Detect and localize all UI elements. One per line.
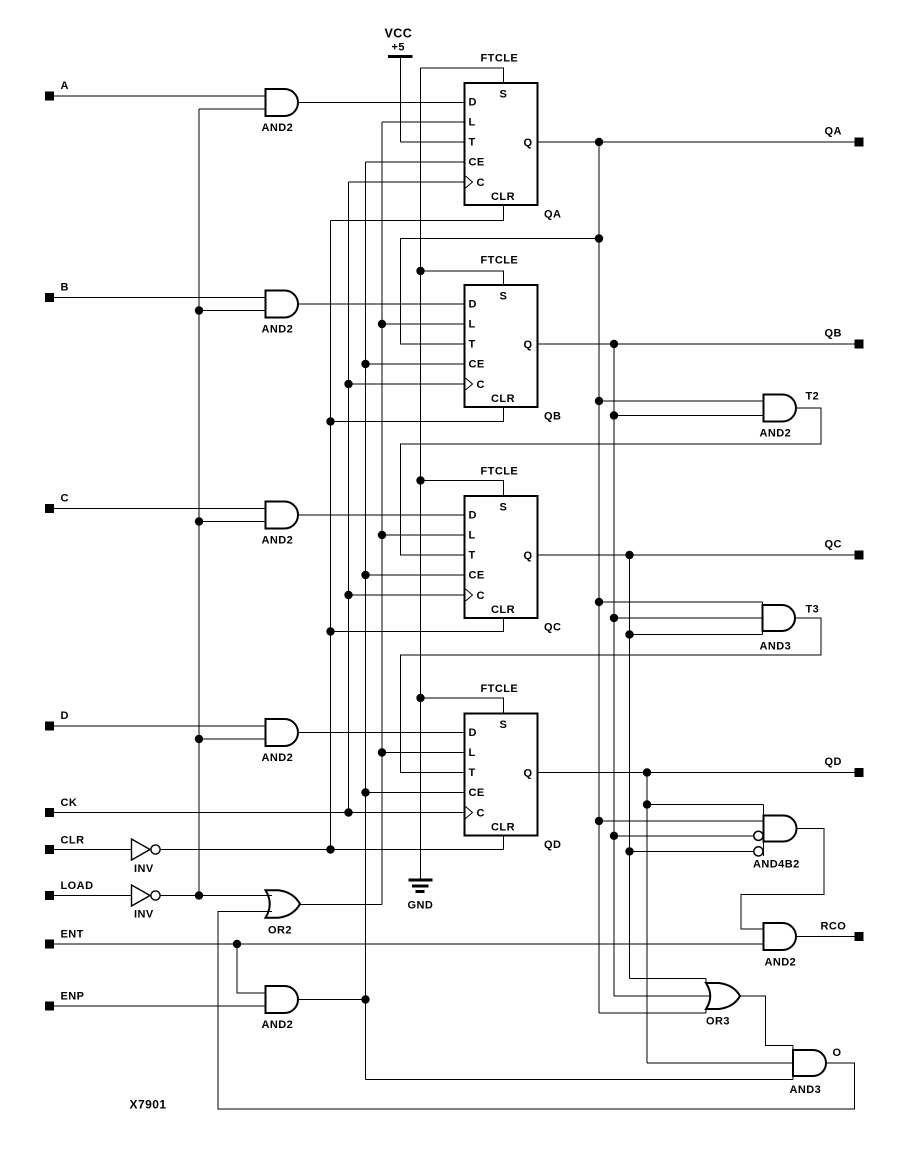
- junction CLR' at inverter line: [326, 845, 334, 853]
- svg-text:D: D: [469, 97, 477, 109]
- wire net QD vertical and branches: [647, 773, 793, 1064]
- svg-text:S: S: [500, 89, 508, 101]
- svg-text:C: C: [61, 493, 69, 505]
- junction CE at FF2: [361, 360, 369, 368]
- junction QB at T2 input: [610, 411, 618, 419]
- svg-text:T: T: [469, 550, 476, 562]
- wire ENT branch to ENP AND2: [237, 944, 266, 993]
- svg-text:ENP: ENP: [61, 991, 85, 1003]
- OR3 gate (terminal count): [706, 979, 740, 1028]
- AND2 gate RCO: [764, 923, 797, 969]
- output terminal RCO: [821, 921, 864, 942]
- svg-text:QC: QC: [544, 622, 561, 634]
- junction QC at Q output: [625, 551, 633, 559]
- svg-text:FTCLE: FTCLE: [481, 466, 519, 478]
- inverter INV (LOAD): [132, 885, 161, 921]
- svg-text:AND2: AND2: [760, 428, 792, 440]
- wire AND4B2 out loop to RCO AND2: [741, 829, 824, 930]
- svg-text:QC: QC: [825, 539, 842, 551]
- svg-text:FTCLE: FTCLE: [481, 53, 519, 65]
- junction S at FF4: [416, 694, 424, 702]
- svg-text:S: S: [500, 291, 508, 303]
- svg-text:INV: INV: [134, 909, 154, 921]
- svg-text:T: T: [469, 767, 476, 779]
- svg-text:CE: CE: [469, 570, 485, 582]
- svg-text:AND2: AND2: [262, 1019, 294, 1031]
- svg-text:CLR: CLR: [61, 835, 85, 847]
- wire CLR input to inverter: [54, 849, 132, 851]
- junction QA at AND4B2 input: [595, 817, 603, 825]
- svg-text:B: B: [61, 282, 69, 294]
- wire VCC to FF1 T: [401, 141, 465, 143]
- svg-text:D: D: [469, 299, 477, 311]
- wire net S to GND with FF S stubs: [421, 68, 504, 879]
- inverter INV (CLR): [132, 839, 161, 875]
- power symbol VCC +5: [385, 27, 413, 143]
- svg-text:CE: CE: [469, 787, 485, 799]
- input terminal CLR: [45, 835, 84, 855]
- svg-text:AND2: AND2: [262, 752, 294, 764]
- junction QA at T3 input: [595, 598, 603, 606]
- flip-flop FTCLE (QD): [465, 683, 562, 851]
- input terminal LOAD: [45, 880, 93, 900]
- svg-text:LOAD: LOAD: [61, 880, 94, 892]
- svg-text:A: A: [61, 80, 69, 92]
- svg-text:X7901: X7901: [130, 1098, 167, 1112]
- wire AND2-B out to FF2 D: [298, 303, 465, 305]
- svg-text:ENT: ENT: [61, 929, 84, 941]
- wire AND2-C out to FF3 D: [298, 514, 465, 516]
- svg-text:INV: INV: [134, 863, 154, 875]
- AND2 gate ENP*ENT: [262, 986, 299, 1031]
- svg-text:QD: QD: [825, 756, 842, 768]
- wire net L vertical with FF L stubs: [300, 122, 465, 905]
- junction CE at FF3: [361, 571, 369, 579]
- svg-text:T: T: [469, 137, 476, 149]
- svg-text:AND2: AND2: [262, 122, 294, 134]
- svg-text:C: C: [477, 590, 485, 602]
- wire OR2 out to L net: [299, 904, 300, 906]
- svg-text:QB: QB: [825, 328, 842, 340]
- svg-text:AND2: AND2: [765, 957, 797, 969]
- AND2 gate (D input): [262, 719, 299, 764]
- svg-text:AND3: AND3: [760, 641, 792, 653]
- output terminal QB: [825, 328, 864, 349]
- wire FF1 Q to QA terminal: [538, 141, 855, 143]
- AND2 gate T2: [760, 391, 820, 440]
- wire net QB vertical and branches: [614, 344, 764, 996]
- wire T2 out loop to FF3 T: [401, 408, 822, 555]
- junction LOAD' at D gate: [195, 735, 203, 743]
- wire net QA vertical and branches: [599, 142, 764, 1013]
- wire AND2-D out to FF4 D: [298, 732, 465, 734]
- svg-text:OR3: OR3: [706, 1016, 730, 1028]
- flip-flop FTCLE (QC): [465, 466, 562, 634]
- junction QA at Q output: [595, 138, 603, 146]
- svg-text:D: D: [469, 727, 477, 739]
- flip-flop FTCLE (QB): [465, 255, 562, 423]
- wire net LOAD' (inverter out, AND2 second inputs): [160, 109, 272, 896]
- svg-text:C: C: [477, 379, 485, 391]
- junction clock at CK line: [344, 808, 352, 816]
- AND2 gate (A input): [262, 89, 298, 134]
- svg-text:L: L: [469, 117, 476, 129]
- svg-text:CLR: CLR: [491, 191, 515, 203]
- svg-text:T3: T3: [806, 604, 820, 616]
- input terminal B: [45, 282, 69, 303]
- output terminal QA: [825, 126, 864, 147]
- svg-text:AND3: AND3: [790, 1084, 822, 1096]
- junction QD at AND4B2 input: [643, 800, 651, 808]
- label X7901: [130, 1098, 167, 1112]
- junction CLR' at FF2: [326, 417, 334, 425]
- svg-text:S: S: [500, 719, 508, 731]
- svg-text:O: O: [833, 1047, 842, 1059]
- svg-text:AND2: AND2: [262, 324, 294, 336]
- svg-text:QA: QA: [544, 209, 561, 221]
- wire LOAD input to inverter: [54, 895, 132, 897]
- junction L at FF4: [378, 748, 386, 756]
- svg-text:D: D: [61, 710, 69, 722]
- svg-text:T: T: [469, 339, 476, 351]
- junction QA at FF2 T branch: [595, 234, 603, 242]
- wire net CLR' vertical with FF CLR stubs: [160, 205, 504, 850]
- junction QB at AND4B2 input: [610, 832, 618, 840]
- junction S at FF2: [416, 267, 424, 275]
- svg-text:CLR: CLR: [491, 393, 515, 405]
- junction S at FF3: [416, 476, 424, 484]
- junction LOAD' at inverter output: [195, 891, 203, 899]
- wire QA to FF2 T: [401, 239, 600, 345]
- svg-text:CLR: CLR: [491, 822, 515, 834]
- svg-text:Q: Q: [524, 339, 533, 351]
- input terminal C: [45, 493, 69, 514]
- ground symbol GND: [408, 870, 434, 912]
- junction QC at T3 input: [625, 630, 633, 638]
- junction QB at T3 input: [610, 614, 618, 622]
- AND3 gate O (carry out): [790, 1046, 842, 1097]
- svg-text:CLR: CLR: [491, 604, 515, 616]
- wire T3 out loop to FF4 T: [401, 618, 822, 773]
- AND2 gate (B input): [262, 291, 299, 336]
- junction clock at FF2 C: [344, 380, 352, 388]
- output terminal QD: [825, 756, 864, 777]
- wire CK input to C pins: [54, 812, 465, 814]
- svg-text:VCC: VCC: [385, 27, 413, 41]
- junction QB at Q output: [610, 340, 618, 348]
- svg-text:D: D: [469, 510, 477, 522]
- junction clock at FF3 C: [344, 591, 352, 599]
- junction L at FF3: [378, 531, 386, 539]
- junction LOAD' at B gate: [195, 306, 203, 314]
- wire FF4 Q to QD terminal: [538, 772, 855, 774]
- svg-text:L: L: [469, 319, 476, 331]
- svg-text:C: C: [477, 808, 485, 820]
- junction QC at AND4B2 input: [625, 847, 633, 855]
- svg-text:QB: QB: [544, 411, 561, 423]
- svg-text:T2: T2: [806, 391, 820, 403]
- input terminal A: [45, 80, 69, 101]
- svg-text:OR2: OR2: [268, 925, 292, 937]
- junction CE at ENP AND2 output: [361, 995, 369, 1003]
- svg-text:FTCLE: FTCLE: [481, 683, 519, 695]
- junction QA at T2 input: [595, 397, 603, 405]
- wire FF2 Q to QB terminal: [538, 343, 855, 345]
- svg-text:S: S: [500, 502, 508, 514]
- AND3 gate T3: [760, 602, 820, 653]
- wire C input to AND2: [54, 508, 266, 510]
- wire OR3 out loop to AND3: [740, 996, 793, 1046]
- svg-text:AND4B2: AND4B2: [753, 859, 800, 871]
- AND4B2 gate (ripple carry decode): [753, 805, 800, 871]
- svg-text:Q: Q: [524, 768, 533, 780]
- wire net clock vertical with FF C stubs: [349, 182, 465, 813]
- input terminal ENP: [45, 991, 84, 1011]
- input terminal CK: [45, 797, 77, 817]
- junction L at FF2: [378, 320, 386, 328]
- svg-text:Q: Q: [524, 137, 533, 149]
- svg-text:QA: QA: [825, 126, 842, 138]
- input terminal ENT: [45, 929, 84, 949]
- junction CLR' at FF3: [326, 627, 334, 635]
- input terminal D: [45, 710, 69, 731]
- wire AND2-A out to FF1 D: [298, 102, 465, 104]
- AND2 gate (C input): [262, 502, 299, 547]
- svg-text:CK: CK: [61, 797, 78, 809]
- junction QD at Q output: [643, 768, 651, 776]
- wire B input to AND2: [54, 297, 266, 299]
- wire ENP input to AND2: [54, 1005, 266, 1007]
- svg-text:RCO: RCO: [821, 921, 847, 933]
- wire ENP AND2 out to CE net and AND3: [299, 1000, 794, 1080]
- wire A input to AND2: [54, 95, 266, 97]
- svg-text:L: L: [469, 530, 476, 542]
- junction CE at FF4: [361, 788, 369, 796]
- wire ENT input to RCO AND2: [54, 943, 764, 945]
- output terminal QC: [825, 539, 864, 560]
- svg-text:QD: QD: [544, 839, 561, 851]
- wire RCO AND2 out to RCO terminal: [796, 936, 855, 938]
- svg-text:CE: CE: [469, 157, 485, 169]
- wire AND3 O out feedback loop to OR2: [218, 912, 855, 1110]
- wire FF3 Q to QC terminal: [538, 554, 855, 556]
- svg-text:Q: Q: [524, 550, 533, 562]
- svg-text:CE: CE: [469, 359, 485, 371]
- wire net CE vertical with FF CE stubs: [366, 162, 465, 1000]
- OR2 gate (load enable): [266, 890, 301, 936]
- wire D input to AND2: [54, 725, 266, 727]
- svg-text:AND2: AND2: [262, 535, 294, 547]
- junction LOAD' at C gate: [195, 517, 203, 525]
- flip-flop FTCLE (QA): [465, 53, 562, 221]
- svg-text:GND: GND: [408, 900, 434, 912]
- wire net QC vertical and branches: [630, 555, 763, 979]
- svg-text:C: C: [477, 177, 485, 189]
- svg-text:FTCLE: FTCLE: [481, 255, 519, 267]
- junction ENT branch: [233, 940, 241, 948]
- svg-text:+5: +5: [392, 42, 405, 54]
- svg-text:L: L: [469, 747, 476, 759]
